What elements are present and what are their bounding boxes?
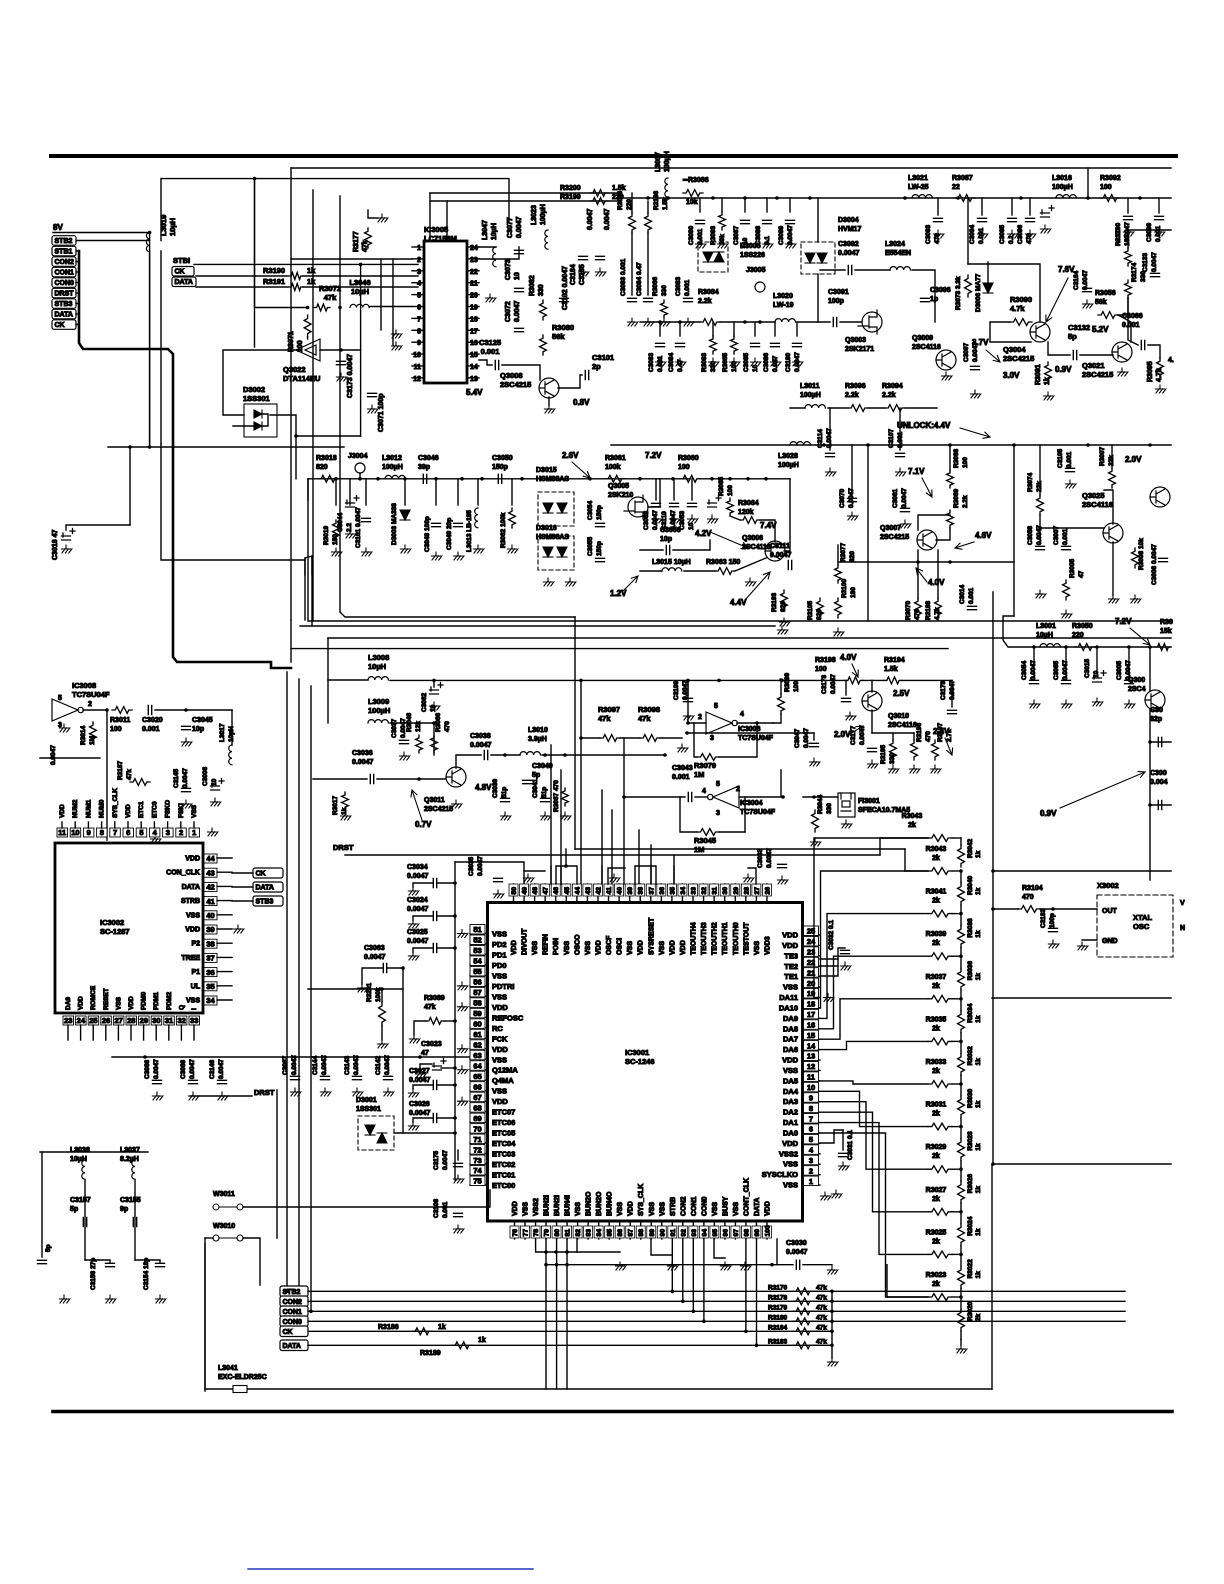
wire IC3001 left pin 67 stub <box>470 1100 488 1102</box>
wire bus x612 <box>611 810 613 884</box>
pin number 55 IC3001 <box>470 966 485 976</box>
junction R3072 right <box>338 306 342 310</box>
resistor R3099 100 <box>778 694 785 714</box>
pin number 38 IC3002 <box>204 939 217 948</box>
svg-text:59: 59 <box>473 1009 481 1018</box>
svg-text:90: 90 <box>659 1229 666 1237</box>
ground C3033 <box>777 876 788 884</box>
capacitor C3180 <box>793 343 802 346</box>
resistor R3104 470 <box>1018 906 1040 913</box>
svg-text:6: 6 <box>126 828 130 837</box>
wire bus CON0 far ext <box>832 1320 1125 1322</box>
capacitor C3005 <box>1125 680 1134 683</box>
svg-text:41: 41 <box>206 897 214 906</box>
wire IC3005 pin16 stub <box>467 341 479 343</box>
svg-text:VDD: VDD <box>511 940 518 955</box>
svg-text:100: 100 <box>764 1225 771 1237</box>
IC U3002 SC-1287 body <box>55 843 203 1013</box>
pin number 18 IC3001 <box>804 999 819 1009</box>
svg-text:27: 27 <box>114 1016 122 1025</box>
wire C3094 stub2 <box>981 198 983 215</box>
resistor R3011 100 <box>112 707 132 714</box>
pin number 97 IC3001 <box>731 1226 740 1238</box>
ground C3023 <box>415 1070 426 1078</box>
wire DA7 to ladder node <box>820 999 928 1039</box>
svg-text:25: 25 <box>89 1016 97 1025</box>
wire IC3001 bottom pin 94 stub <box>703 1221 705 1239</box>
wire IC3001 bottom pin 99 stub <box>755 1221 757 1239</box>
wire R3665 to row <box>733 322 735 336</box>
ground D3016 <box>565 578 576 586</box>
svg-text:VDD: VDD <box>492 1003 508 1012</box>
wire IC3002 bottom pin 24 <box>80 1025 82 1040</box>
junction bus drop 2 <box>692 1310 696 1314</box>
wire Q3010 emitter <box>871 710 873 733</box>
pin number 90 IC3001 <box>657 1226 666 1238</box>
svg-text:1k: 1k <box>975 1143 982 1151</box>
svg-text:5: 5 <box>139 828 143 837</box>
pin number 81 IC3001 <box>563 1226 572 1238</box>
wire Q3025 emitter <box>1112 542 1114 595</box>
svg-text:VSS: VSS <box>115 996 122 1010</box>
pin number 41 IC3001 <box>604 884 613 896</box>
svg-text:VDD: VDD <box>185 927 200 934</box>
svg-text:VSS: VSS <box>733 1202 740 1216</box>
pin number 65 IC3001 <box>470 1071 485 1081</box>
ground R3105 area <box>833 628 844 636</box>
wire ladder node 4 <box>952 1040 961 1042</box>
ground C3083 bottom <box>655 358 666 366</box>
wire long y638 <box>328 637 1171 639</box>
svg-text:R3073 3.3k: R3073 3.3k <box>955 276 962 310</box>
svg-text:VSS: VSS <box>659 1202 666 1216</box>
pin number 1 IC3002 <box>189 828 200 837</box>
wire cap bus x455 <box>454 862 456 1180</box>
ground IC3001 left pin 56 <box>457 982 468 990</box>
pin number 79 IC3001 <box>542 1226 551 1238</box>
svg-text:C3048 100p: C3048 100p <box>424 516 431 552</box>
ground above pin 41 <box>609 874 620 882</box>
resistor R3044 330 <box>812 810 819 832</box>
junction ladder node 2 <box>959 954 963 958</box>
svg-text:VSS: VSS <box>492 992 507 1001</box>
junctions rail y647 <box>1032 645 1152 649</box>
wire L3009 net <box>433 723 435 755</box>
diode D3015a <box>543 503 553 513</box>
wire ladder seg2 3 <box>960 990 962 999</box>
svg-text:W3011: W3011 <box>213 1191 235 1198</box>
svg-text:2.0V: 2.0V <box>1125 455 1142 464</box>
wire C3020 right <box>155 709 186 711</box>
svg-text:4: 4 <box>702 788 706 795</box>
pin number 71 IC3001 <box>470 1134 485 1144</box>
resistor R3014 1M <box>90 722 97 742</box>
resistor R3066 470 <box>431 735 438 753</box>
inductor L3016 100uH <box>1056 195 1076 198</box>
diode D3004 HVM17 dashed box <box>801 242 835 274</box>
svg-text:PDTRI: PDTRI <box>492 982 515 991</box>
wire C3034 left <box>413 883 432 887</box>
resistor R3200 <box>590 190 608 197</box>
svg-text:12: 12 <box>413 376 421 383</box>
svg-text:80: 80 <box>554 1229 561 1237</box>
svg-text:73: 73 <box>473 1156 481 1165</box>
svg-text:61: 61 <box>473 1030 481 1039</box>
wire IC3001 right pin 13 stub <box>803 1059 821 1061</box>
svg-text:BUN4I: BUN4I <box>565 1195 572 1216</box>
wire C3178 drop <box>845 680 847 695</box>
wire L3008 rail left <box>328 679 368 681</box>
net tag DATA mid <box>172 277 196 287</box>
ground C3100 <box>1123 228 1134 236</box>
wire R3097 net <box>581 737 600 739</box>
svg-text:C3008 0.0047: C3008 0.0047 <box>1151 544 1158 585</box>
pin number 74 IC3001 <box>470 1166 485 1176</box>
pin number 64 IC3001 <box>470 1061 485 1071</box>
bus tag CK <box>280 1326 308 1337</box>
pin number 66 IC3001 <box>470 1082 485 1092</box>
wire IC3005 pin2 to left bus <box>291 258 412 260</box>
svg-text:42: 42 <box>206 883 214 892</box>
wire R3074 up <box>1039 445 1041 495</box>
wire IC3002 bottom pin 33 <box>193 1025 195 1040</box>
capacitor C3085 <box>751 343 760 346</box>
capacitor C3031 0.1 <box>839 1153 848 1156</box>
inverter Q3022 DTA114EU <box>296 339 320 361</box>
svg-text:C3102 0.0047: C3102 0.0047 <box>562 266 569 310</box>
junction C3047 net <box>685 731 689 735</box>
ground C3047 <box>809 758 820 766</box>
wire R3195 up <box>892 733 894 740</box>
wire x648 <box>647 201 649 213</box>
resistor R3198 zig <box>845 677 863 684</box>
svg-text:40: 40 <box>206 911 214 920</box>
wire IC3005 right pins to comps <box>479 246 496 248</box>
resistor R3187 47k <box>130 779 150 786</box>
wire R3071 to inverter <box>307 337 309 339</box>
svg-text:DA11: DA11 <box>779 993 798 1002</box>
xtal X3002 dashed box <box>1097 895 1173 957</box>
svg-text:6: 6 <box>417 305 421 312</box>
ground C3180 bottom <box>792 358 803 366</box>
wire IC3006 in up <box>687 680 689 723</box>
wire nested frame A2 <box>304 558 306 620</box>
svg-text:CON1: CON1 <box>283 1309 303 1316</box>
svg-text:PDM2: PDM2 <box>166 992 173 1010</box>
wire ladder bottom <box>960 1339 962 1345</box>
svg-text:DA1: DA1 <box>783 1118 798 1127</box>
wire R3073 up <box>967 198 969 264</box>
svg-text:VSS: VSS <box>492 930 507 939</box>
ground R3665 bottom <box>729 358 740 366</box>
wire C3018 lead <box>66 525 130 530</box>
ground R3098 <box>677 744 688 752</box>
transistor Q3004 2SC4215 <box>1030 322 1050 342</box>
wire Q3002 down <box>1149 709 1151 880</box>
resistor R3177 <box>365 228 372 248</box>
resistor R3041 2k <box>928 910 952 917</box>
capacitor C3033 0.0047 <box>778 864 787 867</box>
capacitor C3058 0.0047 <box>1036 546 1045 549</box>
jumper W3010 <box>213 1235 243 1241</box>
svg-text:TEOUTH1: TEOUTH1 <box>722 922 729 955</box>
connector tag CK <box>52 320 76 330</box>
svg-text:37: 37 <box>206 954 214 963</box>
pin number 25 IC3002 <box>88 1016 99 1025</box>
resistor R3072 <box>314 304 330 311</box>
svg-text:SYSRESET: SYSRESET <box>648 917 655 955</box>
svg-text:DA4: DA4 <box>783 1087 799 1096</box>
ground C3053 <box>687 515 698 523</box>
capacitor C3054b <box>1030 680 1039 683</box>
svg-text:47k: 47k <box>816 1294 827 1301</box>
wire IC3005 pin23 stub <box>467 258 479 260</box>
capacitor left edge <box>38 1260 47 1263</box>
svg-text:TE1: TE1 <box>784 972 798 981</box>
pin number 25 IC3001 <box>804 926 819 936</box>
capacitor C3178 0.0047 <box>842 698 851 701</box>
wire IC3005 pin6 stub <box>412 306 424 308</box>
wire C3067 up <box>294 1057 296 1073</box>
wire nested frame A <box>305 556 312 575</box>
wire IC3001 left pin 53 stub <box>470 953 488 955</box>
wire IC3001 top pin 50 stub <box>513 884 515 903</box>
resistor R3037 2k <box>928 995 952 1002</box>
svg-text:R3036: R3036 <box>967 961 974 981</box>
wire nested frame A3 <box>311 556 313 626</box>
svg-text:P1: P1 <box>191 969 200 976</box>
pin number 44 IC3001 <box>572 884 581 896</box>
wire L3037 net <box>134 1180 136 1260</box>
wire pin80 drop <box>556 1239 558 1389</box>
pin number 6 IC3002 <box>123 828 134 837</box>
pin number 91 IC3001 <box>668 1226 677 1238</box>
junction C3173 top <box>339 348 343 352</box>
wire IC3002 bottom pin 30 <box>155 1025 157 1040</box>
capacitor C3043 0.001 <box>688 793 691 802</box>
wire x648b <box>647 233 649 295</box>
wire IC3001 bottom pin 84 stub <box>598 1221 600 1239</box>
junction C3183 <box>1051 907 1055 911</box>
capacitor C3145 0.0047 <box>182 788 191 791</box>
resistor R3005 47 <box>1063 580 1070 600</box>
inductor L3010 3.9uH <box>520 752 540 755</box>
pin number 1 IC3001 <box>804 1176 819 1186</box>
svg-text:18: 18 <box>470 316 478 323</box>
inverter IC3004 TC7SU04F <box>708 786 739 808</box>
wire bus x287 <box>286 672 288 1291</box>
svg-text:C3084 0.47: C3084 0.47 <box>636 262 643 296</box>
pin number 49 IC3001 <box>520 884 529 896</box>
wire x340 elbow <box>340 612 575 617</box>
ground R3083 bottom <box>708 358 719 366</box>
svg-text:R3028: R3028 <box>967 1131 974 1151</box>
ground C3068 <box>188 1092 199 1100</box>
svg-text:═R3086: ═R3086 <box>682 177 709 184</box>
wire R3104 right <box>1040 908 1097 910</box>
ground C3025 <box>408 952 419 960</box>
wire bus x651 <box>650 845 652 884</box>
wire IC3001 right pin 25 stub <box>803 934 821 936</box>
wire inverter output left <box>223 350 296 415</box>
svg-text:VDD: VDD <box>512 1201 519 1216</box>
wire C3003 stub <box>1150 804 1171 806</box>
pin number 44 IC3002 <box>204 854 217 863</box>
transistor Q3026 right edge <box>1150 487 1170 507</box>
wire J3004 stub <box>359 473 361 479</box>
wire ladder seg 6 <box>960 1084 962 1096</box>
ground R3044 <box>810 838 821 846</box>
wire TE pins common <box>820 948 845 959</box>
pin number 20 IC3001 <box>804 978 819 988</box>
inductor L3037 8.2uH <box>132 1160 135 1179</box>
wire C3092 branch <box>820 269 845 271</box>
wire IC3002 top pin 5 <box>140 822 142 828</box>
capacitor C3185 <box>596 256 605 259</box>
wire IC3001 left pin 54 stub <box>470 964 488 966</box>
pin number 42 IC3002 <box>204 882 217 891</box>
wire IC3001 right pin 18 stub <box>803 1007 821 1009</box>
svg-text:1: 1 <box>417 245 421 252</box>
junctions IF rail2 <box>710 477 768 481</box>
wire IC3002 right pin 39 <box>217 928 232 930</box>
pin number 28 IC3002 <box>126 1016 137 1025</box>
resistor R3201 100k <box>379 1002 386 1026</box>
diode D3016a <box>543 547 553 557</box>
wire IC3001 top pin 35 stub <box>671 884 673 903</box>
svg-text:31: 31 <box>165 1016 173 1025</box>
svg-text:43: 43 <box>206 868 214 877</box>
capacitor C3146 0.0047 <box>218 1080 227 1083</box>
ground below pin 97 <box>740 1262 751 1270</box>
diode D3001a <box>365 1125 375 1135</box>
wire R3099 to out <box>773 714 781 723</box>
wire W3010 left <box>204 1238 206 1391</box>
wire x313 bus <box>312 190 314 621</box>
resistor R3186 1k <box>412 1328 432 1335</box>
resistor R3036 1k <box>958 968 965 990</box>
fet Q3005 2SK210 <box>624 495 648 519</box>
svg-text:DA9: DA9 <box>65 997 72 1010</box>
wire C3005 drop <box>1128 647 1130 677</box>
wire IC3001 bottom pin 88 stub <box>640 1221 642 1239</box>
svg-text:76: 76 <box>512 1229 519 1237</box>
ground C3097 <box>970 390 981 398</box>
svg-text:FCK: FCK <box>492 1034 508 1043</box>
inductor L3024 <box>890 267 910 270</box>
wire IC3005 pin24 stub <box>467 246 479 248</box>
wire ladder node 7 <box>952 1168 961 1170</box>
junction bus drop 1 <box>681 1300 685 1304</box>
svg-text:2.0V: 2.0V <box>834 730 851 739</box>
resistor R3062 100k <box>509 508 516 528</box>
arrow 2.6V <box>572 462 590 478</box>
svg-text:69: 69 <box>473 1114 481 1123</box>
svg-text:VSS: VSS <box>617 1202 624 1216</box>
wire y871 to right <box>993 870 1171 872</box>
wire C3036 left <box>313 778 367 780</box>
pin number 70 IC3001 <box>470 1124 485 1134</box>
svg-text:3.0V: 3.0V <box>1003 371 1020 380</box>
wire IC3001 bottom pin 97 stub <box>734 1221 736 1239</box>
pin number 39 IC3002 <box>204 925 217 934</box>
resistor R3019 150 <box>333 520 340 540</box>
svg-text:VDD3: VDD3 <box>764 936 771 955</box>
wire R3064 left <box>730 516 740 520</box>
arrow 3.7V <box>986 350 1000 362</box>
resistor R3096 2.2k <box>848 405 868 412</box>
wire IF rail2 <box>700 478 790 480</box>
wire IF drop x336 <box>335 479 337 505</box>
resistor R3184 47k <box>793 1328 813 1335</box>
svg-text:57: 57 <box>473 988 481 997</box>
wire ladder seg 11 <box>960 1297 962 1309</box>
pin number 13 IC3001 <box>804 1051 819 1061</box>
resistor R3040 1k <box>958 883 965 905</box>
ground VSS right <box>831 1190 842 1198</box>
svg-text:55: 55 <box>473 967 481 976</box>
wire DA3 to ladder node <box>820 1102 928 1170</box>
wire ladder seg2 7 <box>960 1161 962 1170</box>
pin number 53 IC3001 <box>470 945 485 955</box>
pin number 5 IC3001 <box>804 1134 819 1144</box>
resistor R3030 1k <box>958 1096 965 1118</box>
svg-text:OSCI: OSCI <box>617 938 624 955</box>
svg-text:VDD: VDD <box>492 1097 508 1106</box>
wire R3077 chain <box>837 545 839 565</box>
svg-text:ETC04: ETC04 <box>492 1139 516 1148</box>
svg-text:62: 62 <box>473 1040 481 1049</box>
arrow 4.4V <box>745 572 770 600</box>
pin number 23 IC3002 <box>63 1016 74 1025</box>
wire STBI to IC3005 pin3 <box>194 263 418 265</box>
junction C3003 <box>1148 803 1152 807</box>
svg-text:70: 70 <box>473 1124 481 1133</box>
wire ladder seg 4 <box>960 999 962 1011</box>
wire DRST line <box>345 854 880 856</box>
resistor R3028 1k <box>958 1139 965 1161</box>
pin number 10 IC3001 <box>804 1082 819 1092</box>
ground IC3008 <box>59 724 70 732</box>
wire x624 bus <box>623 738 625 884</box>
ground C3005 <box>1124 700 1135 708</box>
svg-text:VDD: VDD <box>125 804 132 818</box>
wire IC3001 top pin 26 stub <box>766 884 768 903</box>
svg-text:VDD: VDD <box>128 996 135 1010</box>
capacitor C3027 0.0047 <box>433 1081 436 1090</box>
svg-text:NUM2: NUM2 <box>72 799 79 818</box>
diode D3015b <box>557 503 567 513</box>
pin number 27 IC3001 <box>752 884 761 896</box>
svg-text:7: 7 <box>113 828 117 837</box>
capacitor C3041 51p <box>541 798 550 801</box>
pin number 4 IC3002 <box>149 828 160 837</box>
wire ladder node 2 <box>952 955 961 957</box>
svg-text:2: 2 <box>417 257 421 264</box>
junction y871 <box>991 869 995 873</box>
wire IC3001 top pin 40 stub <box>618 884 620 903</box>
wire rail to C3179 <box>902 679 952 681</box>
wire C3107 up <box>899 408 901 450</box>
wire bus x639 <box>638 830 640 884</box>
svg-text:Q12MA: Q12MA <box>492 1066 518 1075</box>
ground C3164 <box>1082 300 1093 308</box>
svg-text:DATA: DATA <box>283 1343 301 1350</box>
pin number 2 IC3002 <box>176 828 187 837</box>
wire IC3002 top pin 1 <box>193 822 195 828</box>
junction pin46 loop <box>564 864 568 868</box>
wire ladder seg2 11 <box>960 1331 962 1340</box>
